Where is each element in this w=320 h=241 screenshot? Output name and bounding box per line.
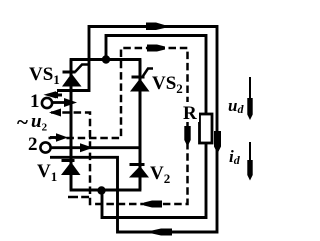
svg-text:1: 1 — [30, 91, 40, 112]
node top rail junction — [102, 55, 110, 63]
thyristor VS1 — [62, 65, 89, 87]
svg-text:2: 2 — [28, 134, 38, 155]
arrow dashed right — [184, 126, 190, 147]
arrow loop1 start — [44, 91, 57, 98]
thyristor VS2 — [130, 69, 153, 92]
diode V2 — [129, 165, 149, 178]
arrow loop1 bottom — [152, 229, 172, 236]
terminal 2 — [40, 142, 50, 152]
diode V1 — [61, 161, 81, 176]
svg-text:id: id — [229, 147, 241, 167]
dashed tail to V1 — [68, 196, 89, 199]
arrow dashed top — [147, 45, 165, 52]
svg-text:V2: V2 — [150, 163, 170, 186]
arrow on terminal 1 wire — [64, 98, 77, 107]
wire terminal 2 to bridge — [51, 146, 140, 149]
annotation ud arrow — [249, 77, 251, 118]
arrow into terminal 1 — [46, 92, 58, 99]
wire top rail — [70, 58, 142, 61]
terminal 1 — [42, 98, 52, 108]
svg-text:V1: V1 — [37, 161, 57, 184]
arrow on terminal 2 wire — [80, 143, 93, 152]
arrow loop1 top — [146, 23, 165, 31]
load wire to resistor (solid) — [106, 36, 206, 115]
solid current loop positive half — [50, 27, 217, 233]
svg-text:VS1: VS1 — [29, 64, 60, 87]
arrow dashed into terminal 1 — [49, 109, 61, 117]
wire terminal 1 to bridge — [52, 101, 68, 104]
arrow loop1 right — [214, 131, 221, 154]
svg-text:ud: ud — [228, 96, 244, 116]
dashed current loop negative half — [49, 48, 188, 204]
wire right branch — [139, 60, 142, 191]
annotation id arrow — [249, 142, 251, 178]
svg-text:u2: u2 — [31, 111, 48, 134]
label R (white backing over dashed line) — [182, 102, 199, 122]
svg-text:~: ~ — [17, 110, 28, 134]
svg-text:VS2: VS2 — [152, 73, 183, 96]
arrow dashed from terminal 2 — [56, 133, 68, 141]
arrow dashed bottom — [144, 201, 162, 208]
node bottom rail junction — [97, 186, 105, 194]
svg-text:R: R — [183, 103, 197, 124]
wire bottom rail — [70, 189, 142, 192]
wire left branch — [70, 60, 73, 191]
resistor R — [200, 114, 213, 143]
